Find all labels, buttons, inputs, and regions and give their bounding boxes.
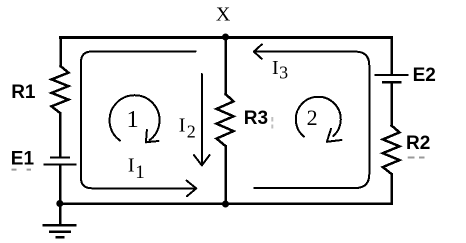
current I1 loop path (left mesh inner C-shape with arrow): [81, 52, 196, 189]
wire: middle branch upper segment: [224, 37, 227, 94]
wire: bottom horizontal rail: [60, 202, 392, 205]
wire: right branch lower segment: [390, 174, 393, 204]
svg-text:3: 3: [279, 63, 288, 83]
battery E1 long bottom plate: [45, 163, 76, 165]
wire: right branch between E2 and R2: [390, 83, 393, 125]
svg-text:I: I: [272, 57, 279, 79]
ground symbol: [44, 225, 76, 237]
resistor R3 zigzag: [217, 94, 234, 146]
junction dot at node X (top middle): [222, 34, 229, 41]
artifact: grey dashes right of R3: [271, 117, 273, 129]
current I2 arrowhead: [194, 155, 210, 165]
mesh loop 1 arrowhead: [146, 130, 159, 143]
current I3 loop path (right mesh inner C-shape): [254, 52, 369, 188]
mesh loop 2 arrowhead: [327, 129, 342, 142]
wire: left branch upper segment: [59, 37, 62, 66]
wire: left branch lower segment: [59, 166, 62, 204]
junction dot bottom middle: [222, 201, 229, 208]
wire: ground stub: [59, 204, 62, 225]
svg-text:X: X: [216, 4, 231, 26]
artifact: grey dashes under E1: [12, 169, 32, 171]
svg-text:R2: R2: [406, 133, 430, 154]
current I1 arrowhead: [187, 181, 197, 197]
wire: right branch upper segment: [390, 37, 393, 74]
svg-text:2: 2: [187, 122, 196, 142]
svg-text:I: I: [128, 155, 135, 177]
mesh loop 2 circular arrow: [296, 97, 341, 137]
wire: middle branch lower segment: [224, 146, 227, 204]
svg-text:E1: E1: [11, 148, 35, 169]
battery E2 long top plate: [376, 74, 408, 76]
current I3 arrowhead: [254, 44, 262, 58]
battery E1 short top plate: [51, 156, 69, 158]
wire: top horizontal (node X rail): [61, 36, 392, 39]
junction dot bottom left (ground node): [56, 200, 63, 207]
mesh loop 1 circular arrow: [110, 95, 160, 140]
svg-text:2: 2: [307, 105, 318, 130]
resistor R1 zigzag: [52, 66, 69, 113]
svg-text:R1: R1: [11, 82, 36, 103]
wire: left branch between R1 and E1: [59, 113, 62, 156]
artifact: grey dashes under R2: [408, 157, 425, 159]
svg-text:R3: R3: [244, 108, 268, 129]
svg-text:1: 1: [127, 106, 139, 133]
battery E2 short bottom plate: [383, 81, 401, 83]
svg-text:1: 1: [135, 162, 145, 183]
svg-text:E2: E2: [413, 65, 436, 86]
svg-text:I: I: [179, 115, 186, 137]
current I2 arrow shaft: [201, 74, 203, 164]
resistor R2 zigzag: [383, 126, 400, 175]
